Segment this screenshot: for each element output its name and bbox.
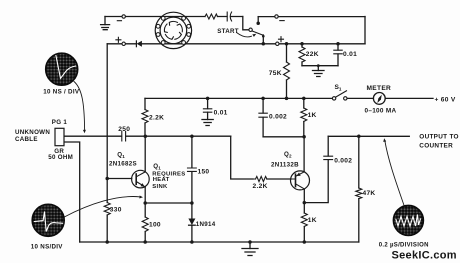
0.002 cap1 branch wires <box>262 98 264 136</box>
svg-text:47K: 47K <box>363 190 376 197</box>
scope 3 leader arrow <box>383 138 404 207</box>
wire tube right to corner <box>218 16 243 18</box>
capacitor 150 <box>188 168 197 171</box>
2.2K2 vertical drop <box>231 136 253 179</box>
diode (power input, points left) <box>136 41 142 47</box>
75K branch wires <box>286 44 288 99</box>
resistor 2.2K (Q2 base) <box>256 176 267 181</box>
svg-text:0–100 MA: 0–100 MA <box>365 108 397 115</box>
svg-text:METER: METER <box>367 85 392 92</box>
switch S1 arm <box>335 91 347 98</box>
resistor (unlabeled) top <box>205 14 217 19</box>
resistor 75K <box>284 62 290 80</box>
bottom link 22K to 0.01 <box>302 65 338 67</box>
ground G2 center bottom <box>242 242 258 256</box>
rail C main horizontal <box>145 97 333 99</box>
junction dots <box>256 21 260 25</box>
svg-text:75K: 75K <box>269 70 282 77</box>
1K#2 wires <box>303 203 305 242</box>
collector node line to 150 cap and 2.2K2 corner <box>145 135 230 137</box>
capacitor 0.01 (top right) <box>334 50 342 54</box>
svg-text:2.2K: 2.2K <box>253 183 268 190</box>
resistor 2.2K (Q1 collector) <box>142 110 148 123</box>
svg-text:1: 1 <box>158 166 161 171</box>
scope bubble 1 (10 NS/DIV) <box>46 53 78 85</box>
PG1 output wire <box>64 135 145 137</box>
svg-text:0.01: 0.01 <box>214 110 228 117</box>
0.01 cap1 branch wire <box>207 98 209 108</box>
scope 2 leader arrow <box>64 195 143 217</box>
svg-text:UNKNOWN: UNKNOWN <box>15 129 50 136</box>
transistor Q2 2N1132B (PNP) <box>291 171 310 190</box>
svg-text:100: 100 <box>149 222 161 229</box>
svg-text:0.002: 0.002 <box>334 158 352 165</box>
1N914 branch wires <box>191 203 193 242</box>
svg-text:CABLE: CABLE <box>15 136 38 143</box>
svg-text:PG 1: PG 1 <box>52 119 68 126</box>
150 cap branch wires <box>191 136 193 203</box>
ground G3 under 22K/0.01 <box>313 66 325 77</box>
svg-text:+ 60 V: + 60 V <box>435 97 456 104</box>
svg-text:0.002: 0.002 <box>269 114 287 121</box>
svg-text:1K: 1K <box>308 217 317 224</box>
Q1 emitter line to 150/1N914 node <box>145 202 192 204</box>
0.01 cap2 branch wires <box>337 44 339 66</box>
2.2K2 to Q2 base <box>267 178 291 180</box>
top-right minus rail <box>258 16 365 18</box>
START leader arrow <box>237 33 257 37</box>
svg-text:10 NS / DIV: 10 NS / DIV <box>43 88 80 95</box>
svg-text:1N914: 1N914 <box>196 221 216 228</box>
left vertical rail from plus corner down (gap for 330) <box>106 44 108 242</box>
svg-text:150: 150 <box>198 168 210 175</box>
1K R branch wires <box>303 98 305 136</box>
switch lower contact vertical <box>262 35 264 44</box>
node link 0.002 to 1K bottom <box>263 136 304 138</box>
svg-text:1: 1 <box>339 86 342 91</box>
svg-text:10 NS/DIV: 10 NS/DIV <box>31 243 64 250</box>
svg-text:2N1682S: 2N1682S <box>109 161 137 168</box>
wire 2.2K2 ends <box>253 178 296 180</box>
svg-text:1K: 1K <box>308 112 317 119</box>
meter M1 <box>373 93 385 105</box>
svg-text:0.2 µS/DIVISION: 0.2 µS/DIVISION <box>379 242 429 248</box>
svg-text:250: 250 <box>118 126 130 133</box>
resistor 22K <box>299 47 305 62</box>
capacitor 0.002 (rail C) <box>259 113 267 117</box>
diode 1N914 (points up) <box>188 219 195 226</box>
terminal circles <box>122 15 347 100</box>
START switch arm <box>252 31 263 35</box>
svg-text:HEAT: HEAT <box>153 177 170 183</box>
47K branch wires <box>358 136 360 242</box>
2.2K R1 branch wires <box>144 98 146 136</box>
bottom ground rail <box>80 241 359 243</box>
resistor 330 <box>104 203 110 215</box>
resistor 100 <box>142 217 148 232</box>
svg-text:22K: 22K <box>306 51 319 58</box>
svg-text:START: START <box>217 28 239 35</box>
svg-text:50 OHM: 50 OHM <box>48 154 73 161</box>
svg-text:SINK: SINK <box>152 184 168 190</box>
capacitor 0.002 (output) <box>324 156 333 159</box>
scope bubble 3 (0.2 uS/DIVISION) <box>393 205 423 235</box>
scope 1 leader arrow <box>74 82 86 134</box>
output line <box>328 135 409 137</box>
capacitor 0.01 (rail C) <box>203 109 211 112</box>
svg-text:SeekIC.com: SeekIC.com <box>392 249 457 261</box>
wire minus rail top-left to tube to resistor <box>105 16 205 18</box>
Q2 emitter wire down <box>303 189 305 202</box>
22K branch wires <box>301 44 303 66</box>
PG1 pulse generator box <box>55 128 64 145</box>
tube / trigger socket V1 <box>155 12 191 48</box>
plus rail right segment <box>263 43 365 45</box>
switch upper contact stub <box>257 17 259 23</box>
PG1 return wire <box>64 142 80 242</box>
svg-text:330: 330 <box>110 206 122 213</box>
svg-text:1: 1 <box>122 154 125 159</box>
capacitor (unlabeled) top <box>227 12 231 21</box>
resistor 47K <box>356 188 362 199</box>
resistor 1K (rail C) <box>301 108 307 121</box>
Q2 emitter node to 0.002#2 <box>304 136 328 202</box>
ground G1 top-left <box>101 17 110 30</box>
100 resistor wires <box>144 203 146 242</box>
svg-text:2: 2 <box>289 154 292 159</box>
polarity marks <box>116 21 284 43</box>
svg-text:2N1132B: 2N1132B <box>271 161 299 168</box>
Q1 base wire <box>107 178 132 180</box>
right corner vertical down <box>364 17 366 44</box>
ground G4 under 0.01 cap1 <box>202 112 213 125</box>
svg-text:OUTPUT TO: OUTPUT TO <box>419 133 459 140</box>
meter rail from S1 to +60V <box>347 97 433 99</box>
Q1 emitter wire <box>144 187 146 203</box>
svg-text:COUNTER: COUNTER <box>419 142 453 149</box>
transistor Q1 2N1682S <box>132 170 150 188</box>
wire plus rail left <box>107 43 263 45</box>
svg-text:2.2K: 2.2K <box>149 115 164 122</box>
wire corner down to START switch <box>243 17 249 30</box>
capacitor 250 (coupling) <box>122 132 126 142</box>
scope bubble 2 (10 NS/DIV) <box>32 204 64 236</box>
resistor 1K (Q2 emitter) <box>301 213 307 227</box>
Q2 collector wire <box>303 137 305 172</box>
Q1 collector wire <box>144 136 146 172</box>
svg-text:0.01: 0.01 <box>343 51 357 58</box>
